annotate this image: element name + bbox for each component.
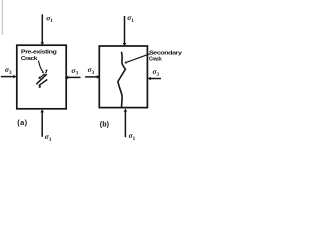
svg-text:Crack: Crack xyxy=(21,56,38,62)
secondary crack (wavy vertical crack) xyxy=(118,52,126,108)
svg-text:Secondary: Secondary xyxy=(149,50,183,56)
svg-text:σ1: σ1 xyxy=(127,13,134,24)
svg-text:σ3: σ3 xyxy=(71,66,78,77)
sigma3 arrow left (a) xyxy=(1,75,17,79)
scan artifact line xyxy=(1,0,3,35)
specimen box a xyxy=(17,45,66,109)
text secondary crack xyxy=(149,50,183,62)
sigma3 arrow right (b) xyxy=(148,77,161,81)
svg-text:(a): (a) xyxy=(17,118,27,127)
svg-text:σ3: σ3 xyxy=(5,65,12,76)
svg-text:Crack: Crack xyxy=(149,57,162,63)
sigma3 arrow right (a) xyxy=(65,76,81,80)
svg-text:σ1: σ1 xyxy=(46,13,53,24)
leader arrow to pre-existing crack xyxy=(39,61,44,74)
text pre-existing crack xyxy=(21,49,57,62)
svg-text:Pre-existing: Pre-existing xyxy=(21,49,57,55)
leader arrow to secondary crack xyxy=(124,54,150,64)
svg-text:σ3: σ3 xyxy=(88,65,95,76)
svg-text:σ1: σ1 xyxy=(45,132,52,143)
svg-text:(b): (b) xyxy=(100,119,110,128)
sigma1 arrow top (b) xyxy=(123,16,127,46)
svg-text:σ3: σ3 xyxy=(153,67,160,78)
sigma3 arrow left (b) xyxy=(85,75,100,79)
pre-existing crack (slanted shear crack with slip arrows) xyxy=(36,69,47,88)
svg-text:σ1: σ1 xyxy=(129,131,136,142)
specimen box b xyxy=(99,46,147,108)
sigma1 arrow bottom (b) xyxy=(124,108,128,137)
sigma1 arrow bottom (a) xyxy=(40,109,44,137)
sigma1 arrow top (a) xyxy=(41,14,45,45)
